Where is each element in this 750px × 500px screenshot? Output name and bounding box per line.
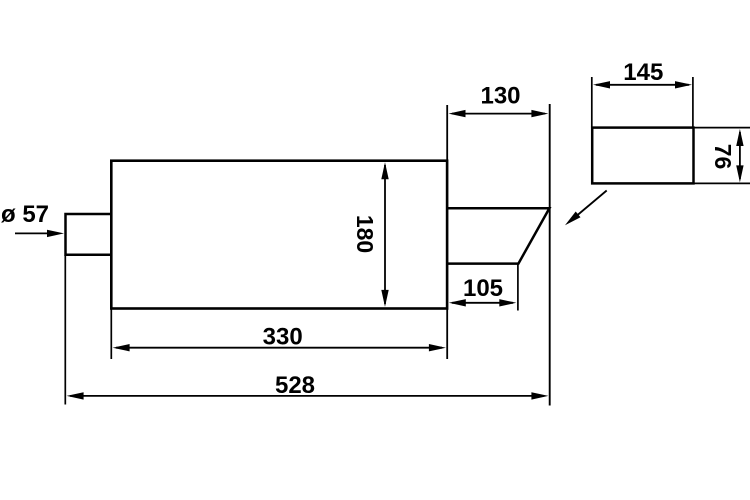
extension line above detail rect right edge — [692, 77, 694, 128]
svg-text:ø 57: ø 57 — [1, 201, 49, 228]
extension line from inlet left edge down to 528 dimension — [64, 255, 66, 405]
dimension line 180 (vertical) — [381, 162, 388, 307]
svg-text:130: 130 — [480, 83, 520, 110]
svg-text:76: 76 — [710, 144, 736, 170]
dimension line 145 — [593, 81, 692, 88]
long extension line at outlet tip end (130 and 528 dimensions) — [549, 104, 551, 406]
extension line from outlet bottom corner down to 105 dimension — [517, 264, 519, 311]
extension line right of detail rect top edge — [694, 127, 750, 129]
svg-text:105: 105 — [463, 275, 503, 302]
dimension line 330 — [113, 344, 446, 351]
pointer arrow from detail rect to outlet tip — [565, 191, 607, 226]
extension line through body right edge (130 and 330 dimensions) — [446, 105, 448, 359]
dimension line 130 — [449, 110, 549, 117]
dimension line 105 — [449, 299, 517, 306]
svg-text:330: 330 — [263, 323, 303, 350]
extension line from body left edge down to 330 dimension — [110, 310, 112, 360]
leader arrow for diameter 57 — [15, 230, 64, 237]
extension line right of detail rect bottom edge — [694, 182, 750, 184]
svg-text:180: 180 — [352, 215, 378, 253]
svg-text:145: 145 — [623, 59, 663, 86]
outlet tip outline — [447, 208, 549, 263]
svg-text:528: 528 — [275, 372, 315, 399]
dimension line 76 (vertical) — [736, 129, 743, 182]
muffler body outline — [111, 161, 447, 309]
inlet pipe outline — [66, 214, 112, 255]
extension line above detail rect left edge — [591, 77, 593, 128]
detail rectangle of tip — [592, 128, 693, 184]
dimension line 528 — [67, 392, 549, 399]
